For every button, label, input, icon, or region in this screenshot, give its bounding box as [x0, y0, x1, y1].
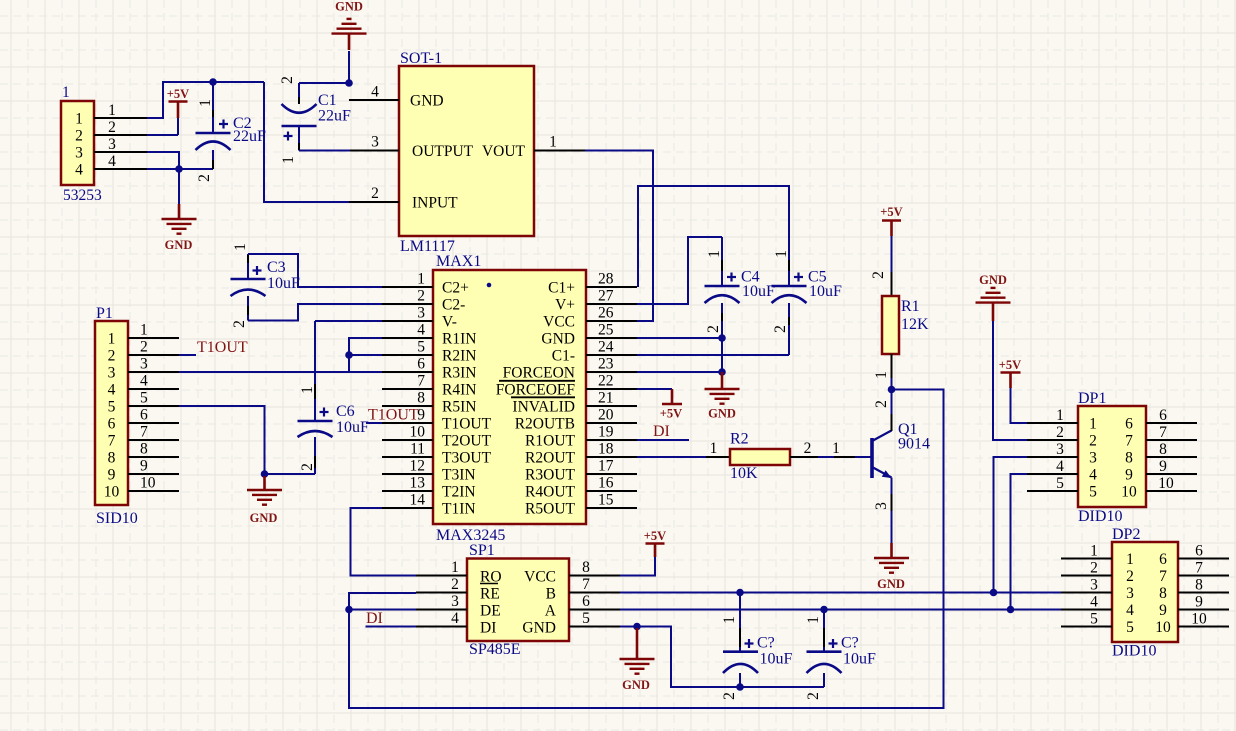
svg-text:2: 2	[705, 325, 722, 333]
connector P1 SID10	[95, 305, 138, 527]
svg-text:2: 2	[870, 271, 887, 279]
pin 6 of DP2	[1178, 543, 1229, 560]
svg-text:2: 2	[371, 185, 379, 202]
pin 2 INPUT of LM1117	[349, 185, 399, 202]
pin 4 of SP485E	[416, 610, 467, 627]
pin 14 of MAX3245	[382, 492, 433, 509]
svg-text:DE: DE	[480, 603, 501, 620]
node junction	[888, 386, 896, 394]
svg-text:5: 5	[108, 399, 116, 416]
svg-text:GND: GND	[522, 620, 556, 637]
svg-text:8: 8	[1159, 585, 1167, 602]
capacitor C3 10uF	[231, 243, 383, 328]
resistor R1 12K	[870, 236, 929, 390]
pin 4 of 53253	[94, 153, 147, 170]
svg-text:1: 1	[417, 271, 425, 288]
svg-text:SOT-1: SOT-1	[400, 50, 442, 67]
pin 1 of MAX3245	[382, 271, 433, 288]
pin 5 of SP485E	[569, 610, 620, 627]
wire	[620, 557, 655, 576]
svg-text:21: 21	[598, 390, 614, 407]
svg-text:R2: R2	[730, 431, 749, 448]
pin 10 of DP2	[1178, 611, 1229, 628]
svg-text:DID10: DID10	[1112, 643, 1156, 660]
pin 5 of DP1	[1027, 475, 1078, 492]
svg-text:6: 6	[108, 416, 116, 433]
power +5V	[644, 529, 666, 557]
pin 4 of P1	[128, 373, 179, 390]
pin 10 of DP1	[1146, 475, 1197, 492]
svg-text:R4OUT: R4OUT	[525, 484, 575, 501]
svg-text:1: 1	[197, 99, 214, 107]
wire	[637, 371, 722, 373]
wire	[147, 168, 179, 170]
svg-text:C1+: C1+	[548, 280, 575, 297]
svg-text:27: 27	[598, 288, 614, 305]
wire	[348, 51, 350, 83]
svg-text:10uF: 10uF	[760, 651, 793, 668]
wire	[620, 609, 1061, 611]
svg-text:12K: 12K	[901, 316, 929, 333]
svg-text:7: 7	[1159, 424, 1167, 441]
svg-text:3: 3	[1090, 577, 1098, 594]
pin 1 of DP1	[1027, 407, 1078, 424]
svg-text:18: 18	[598, 441, 614, 458]
svg-text:GND: GND	[979, 273, 1007, 287]
wire	[147, 134, 178, 136]
svg-text:+5V: +5V	[167, 87, 189, 101]
svg-text:25: 25	[598, 322, 614, 339]
wire	[349, 354, 382, 356]
svg-text:GND: GND	[708, 407, 736, 421]
net label T1OUT	[368, 407, 419, 424]
svg-text:22uF: 22uF	[233, 128, 266, 145]
svg-text:B: B	[546, 586, 556, 603]
svg-text:7: 7	[1125, 433, 1133, 450]
svg-text:T1IN: T1IN	[442, 501, 476, 518]
wire	[818, 456, 871, 458]
svg-text:8: 8	[417, 390, 425, 407]
svg-text:2: 2	[75, 128, 83, 145]
svg-text:9: 9	[1125, 467, 1133, 484]
svg-text:1: 1	[299, 386, 316, 394]
pin 13 of MAX3245	[382, 475, 433, 492]
svg-text:FORCEOEF: FORCEOEF	[496, 382, 576, 399]
wire	[637, 337, 722, 339]
svg-text:C2-: C2-	[442, 297, 465, 314]
pin 8 of DP1	[1146, 441, 1197, 458]
wire	[299, 150, 350, 152]
svg-text:3: 3	[873, 502, 890, 510]
pin 7 of MAX3245	[382, 373, 433, 390]
pin 19 of MAX3245	[586, 424, 637, 441]
svg-text:R2OUTB: R2OUTB	[515, 416, 575, 433]
pin 1 VOUT of LM1117	[534, 134, 585, 151]
svg-text:3: 3	[451, 593, 459, 610]
pin 7 of P1	[128, 424, 179, 441]
svg-text:7: 7	[417, 373, 425, 390]
svg-text:GND: GND	[410, 93, 444, 110]
svg-text:7: 7	[1195, 560, 1203, 577]
pin 4 of DP1	[1027, 458, 1078, 475]
svg-text:C6: C6	[336, 403, 355, 420]
svg-text:T3OUT: T3OUT	[442, 450, 492, 467]
capacitor C5 10uF	[638, 186, 842, 355]
IC U3 SP485E	[467, 542, 569, 658]
svg-text:5: 5	[1090, 611, 1098, 628]
pin 8 of P1	[128, 441, 179, 458]
svg-text:9: 9	[1159, 458, 1167, 475]
svg-text:15: 15	[598, 492, 614, 509]
wire	[637, 388, 672, 390]
pin 10 of P1	[128, 475, 179, 492]
pin 6 of MAX3245	[382, 356, 433, 373]
pin 12 of MAX3245	[382, 458, 433, 475]
connector DP1 DID10	[1078, 390, 1146, 525]
svg-text:10uF: 10uF	[809, 283, 842, 300]
svg-text:9: 9	[108, 467, 116, 484]
capacitor C2 22uF	[196, 82, 267, 182]
svg-text:3: 3	[108, 136, 116, 153]
svg-text:4: 4	[371, 84, 379, 101]
pin 1 of SP485E	[416, 559, 467, 576]
svg-text:16: 16	[598, 475, 614, 492]
pin 7 of DP1	[1146, 424, 1197, 441]
node junction	[990, 589, 998, 597]
pin 11 of MAX3245	[382, 441, 433, 458]
svg-text:2: 2	[1089, 433, 1097, 450]
node junction	[633, 623, 641, 631]
pin 8 of DP2	[1178, 577, 1229, 594]
svg-text:10uF: 10uF	[843, 651, 876, 668]
svg-text:+5V: +5V	[660, 407, 682, 421]
svg-text:1: 1	[108, 331, 116, 348]
pin 10 of MAX3245	[382, 424, 433, 441]
svg-text:1: 1	[140, 322, 148, 339]
svg-text:10: 10	[1121, 484, 1137, 501]
svg-text:17: 17	[598, 458, 614, 475]
pin 8 of SP485E	[569, 559, 620, 576]
wire	[147, 82, 264, 118]
node junction	[175, 165, 183, 173]
wire	[265, 473, 316, 475]
svg-text:T2IN: T2IN	[442, 484, 476, 501]
capacitor C? 10uF (A line)	[805, 610, 876, 700]
pin 9 of DP1	[1146, 458, 1197, 475]
svg-text:5: 5	[1089, 484, 1097, 501]
pin 28 of MAX3245	[586, 271, 637, 288]
pin 5 of P1	[128, 390, 179, 407]
wire	[585, 151, 653, 322]
wire	[993, 321, 1027, 440]
svg-text:3: 3	[371, 134, 379, 151]
pin 2 of SP485E	[416, 576, 467, 593]
svg-text:2: 2	[108, 348, 116, 365]
svg-text:4: 4	[1056, 458, 1064, 475]
net label DI	[653, 423, 670, 440]
wire	[179, 354, 196, 356]
wire	[637, 354, 789, 356]
svg-text:23: 23	[598, 356, 614, 373]
svg-text:V-: V-	[442, 314, 457, 331]
pin 3 of MAX3245	[382, 305, 433, 322]
pin 2 of DP2	[1061, 560, 1112, 577]
svg-text:2: 2	[721, 692, 738, 700]
pin 4 GND of LM1117	[349, 84, 399, 101]
svg-text:4: 4	[108, 153, 116, 170]
svg-text:3: 3	[1126, 585, 1134, 602]
svg-text:7: 7	[582, 576, 590, 593]
svg-text:GND: GND	[165, 238, 193, 252]
svg-text:DI: DI	[366, 610, 383, 627]
svg-text:4: 4	[108, 382, 116, 399]
svg-text:4: 4	[75, 162, 83, 179]
connector J1 53253	[61, 84, 102, 204]
wire	[994, 457, 1028, 593]
wire	[366, 626, 417, 628]
svg-text:C?: C?	[757, 635, 775, 652]
wire	[620, 592, 1061, 594]
svg-text:SID10: SID10	[96, 510, 138, 527]
pin 3 of P1	[128, 356, 179, 373]
svg-text:22uF: 22uF	[318, 108, 351, 125]
IC U2 MAX3245	[433, 253, 586, 544]
pin 27 of MAX3245	[586, 288, 637, 305]
svg-text:P1: P1	[96, 305, 113, 322]
pin 26 of MAX3245	[586, 305, 637, 322]
pin 25 of MAX3245	[586, 322, 637, 339]
ground	[332, 0, 367, 50]
node junction	[261, 470, 269, 478]
svg-text:4: 4	[1090, 594, 1098, 611]
pin 2 of P1	[128, 339, 179, 356]
svg-text:R5IN: R5IN	[442, 399, 476, 416]
wire	[349, 338, 382, 372]
svg-text:8: 8	[108, 450, 116, 467]
svg-text:2: 2	[772, 325, 789, 333]
pin 6 of P1	[128, 407, 179, 424]
wire	[637, 439, 689, 441]
svg-text:7: 7	[140, 424, 148, 441]
svg-text:10K: 10K	[730, 465, 758, 482]
pin 18 of MAX3245	[586, 441, 637, 458]
pin 3 of 53253	[94, 136, 147, 153]
svg-text:8: 8	[1195, 577, 1203, 594]
svg-text:1: 1	[1089, 416, 1097, 433]
svg-text:2: 2	[196, 174, 213, 182]
svg-text:RE: RE	[480, 586, 500, 603]
svg-text:5: 5	[1056, 475, 1064, 492]
net label DI	[366, 610, 383, 627]
pin 3 of DP1	[1027, 441, 1078, 458]
pin 3 of DP2	[1061, 577, 1112, 594]
svg-text:A: A	[545, 603, 557, 620]
pin 2 of DP1	[1027, 424, 1078, 441]
capacitor C4 10uF	[637, 237, 775, 338]
pin 21 of MAX3245	[586, 390, 637, 407]
net label T1OUT	[197, 339, 248, 356]
svg-text:10: 10	[1158, 475, 1174, 492]
svg-text:T2OUT: T2OUT	[442, 433, 492, 450]
svg-text:8: 8	[582, 559, 590, 576]
pin 7 of DP2	[1178, 560, 1229, 577]
power +5V	[167, 87, 189, 135]
svg-text:R2OUT: R2OUT	[525, 450, 575, 467]
svg-text:3: 3	[417, 305, 425, 322]
svg-text:GND: GND	[541, 331, 575, 348]
svg-text:19: 19	[598, 424, 614, 441]
svg-text:INPUT: INPUT	[412, 195, 458, 212]
svg-text:1: 1	[706, 250, 723, 258]
svg-text:1: 1	[280, 156, 297, 164]
pin 15 of MAX3245	[586, 492, 637, 509]
svg-text:10: 10	[104, 484, 120, 501]
svg-text:8: 8	[140, 441, 148, 458]
svg-text:1: 1	[1056, 407, 1064, 424]
wire	[179, 371, 382, 373]
svg-text:6: 6	[1125, 416, 1133, 433]
svg-text:C2+: C2+	[442, 280, 469, 297]
svg-text:13: 13	[410, 475, 426, 492]
svg-text:MAX1: MAX1	[436, 253, 481, 270]
node junction	[209, 78, 217, 86]
pin 4 of MAX3245	[382, 322, 433, 339]
connector DP2 DID10	[1112, 526, 1178, 660]
svg-text:22: 22	[598, 373, 614, 390]
wire	[637, 627, 824, 688]
node junction	[736, 589, 744, 597]
svg-text:R1OUT: R1OUT	[525, 433, 575, 450]
svg-text:+5V: +5V	[644, 529, 666, 543]
svg-text:R3IN: R3IN	[442, 365, 476, 382]
svg-text:V+: V+	[555, 297, 575, 314]
ground	[162, 204, 197, 252]
pin 6 of SP485E	[569, 593, 620, 610]
wire	[179, 406, 265, 474]
node junction	[345, 606, 353, 614]
svg-text:1: 1	[832, 440, 840, 457]
svg-text:1: 1	[1090, 543, 1098, 560]
svg-text:T3IN: T3IN	[442, 467, 476, 484]
svg-text:R1IN: R1IN	[442, 331, 476, 348]
wire	[147, 152, 179, 169]
svg-text:12: 12	[410, 458, 426, 475]
svg-text:DP2: DP2	[1112, 526, 1140, 543]
pin 22 of MAX3245	[586, 373, 637, 390]
svg-text:11: 11	[410, 441, 425, 458]
svg-text:7: 7	[108, 433, 116, 450]
svg-text:GND: GND	[622, 678, 650, 692]
svg-text:9: 9	[1195, 594, 1203, 611]
svg-text:10: 10	[410, 424, 426, 441]
node junction	[820, 606, 828, 614]
capacitor C1 22uF	[279, 76, 351, 164]
svg-text:3: 3	[140, 356, 148, 373]
pin 20 of MAX3245	[586, 407, 637, 424]
wire	[179, 168, 213, 170]
capacitor C? 10uF (B line)	[721, 593, 793, 700]
svg-text:+5V: +5V	[880, 205, 902, 219]
svg-text:1: 1	[108, 102, 116, 119]
svg-text:6: 6	[582, 593, 590, 610]
svg-text:9014: 9014	[898, 436, 930, 453]
capacitor C6 10uF	[298, 321, 383, 474]
node junction	[718, 334, 726, 342]
node junction	[345, 79, 353, 87]
node junction	[718, 368, 726, 376]
svg-text:9: 9	[140, 458, 148, 475]
svg-text:26: 26	[598, 305, 614, 322]
svg-text:5: 5	[417, 339, 425, 356]
svg-text:SP485E: SP485E	[469, 641, 521, 658]
svg-text:2: 2	[140, 339, 148, 356]
svg-text:T1OUT: T1OUT	[368, 407, 419, 424]
svg-text:+5V: +5V	[999, 358, 1021, 372]
svg-text:2: 2	[873, 400, 890, 408]
pin 17 of MAX3245	[586, 458, 637, 475]
svg-text:SP1: SP1	[469, 542, 495, 559]
ground	[620, 628, 655, 692]
wire	[349, 609, 416, 611]
pin 6 of DP1	[1146, 407, 1197, 424]
svg-text:2: 2	[417, 288, 425, 305]
svg-text:3: 3	[1056, 441, 1064, 458]
pin 4 of DP2	[1061, 594, 1112, 611]
ground	[247, 476, 282, 525]
svg-text:6: 6	[140, 407, 148, 424]
svg-text:4: 4	[1126, 602, 1134, 619]
svg-text:4: 4	[1089, 467, 1097, 484]
pin 2 of MAX3245	[382, 288, 433, 305]
svg-text:C3: C3	[267, 259, 286, 276]
wire	[620, 626, 637, 628]
svg-text:10: 10	[140, 475, 156, 492]
svg-text:1: 1	[62, 84, 70, 101]
ground	[976, 273, 1011, 321]
svg-text:R5OUT: R5OUT	[525, 501, 575, 518]
svg-text:5: 5	[582, 610, 590, 627]
svg-text:1: 1	[773, 250, 790, 258]
svg-text:FORCEON: FORCEON	[503, 365, 575, 382]
svg-text:53253: 53253	[63, 187, 102, 204]
svg-text:1: 1	[451, 559, 459, 576]
ground	[705, 372, 740, 421]
svg-text:1: 1	[75, 111, 83, 128]
transistor Q1 9014	[832, 390, 930, 544]
svg-text:1: 1	[1126, 551, 1134, 568]
svg-text:5: 5	[1126, 619, 1134, 636]
svg-text:3: 3	[1089, 450, 1097, 467]
svg-text:8: 8	[1159, 441, 1167, 458]
svg-text:10: 10	[1155, 619, 1171, 636]
svg-text:DI: DI	[653, 423, 670, 440]
svg-text:24: 24	[598, 339, 614, 356]
pin 23 of MAX3245	[586, 356, 637, 373]
pin 3 of SP485E	[416, 593, 467, 610]
svg-text:14: 14	[410, 492, 426, 509]
svg-text:6: 6	[1159, 551, 1167, 568]
svg-text:DP1: DP1	[1078, 390, 1106, 407]
svg-text:DID10: DID10	[1078, 508, 1122, 525]
svg-text:2: 2	[804, 440, 812, 457]
svg-text:2: 2	[1090, 560, 1098, 577]
svg-text:1: 1	[721, 616, 738, 624]
svg-text:2: 2	[231, 320, 248, 328]
svg-text:1: 1	[232, 243, 249, 251]
svg-text:GND: GND	[877, 577, 905, 591]
svg-text:VCC: VCC	[543, 314, 575, 331]
pin 24 of MAX3245	[586, 339, 637, 356]
